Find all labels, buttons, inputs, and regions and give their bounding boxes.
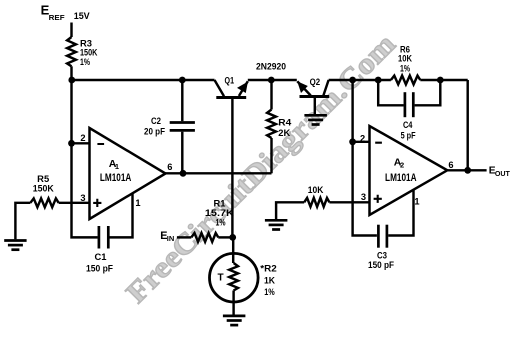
wire right vertical drop to output: [466, 80, 468, 170]
svg-text:1K: 1K: [264, 276, 275, 286]
svg-text:LM101A: LM101A: [100, 172, 132, 184]
junction A1 pin2 node: [68, 140, 75, 147]
svg-text:2: 2: [80, 133, 85, 143]
svg-text:C4: C4: [403, 120, 413, 130]
svg-text:10K: 10K: [308, 185, 324, 195]
ground (10K): [265, 220, 288, 229]
ground (Q2): [304, 115, 327, 124]
junction 2N2920 emitter node: [268, 77, 275, 84]
resistor R6: [391, 76, 420, 85]
resistor R5: [30, 198, 58, 207]
svg-text:5 pF: 5 pF: [401, 130, 416, 140]
wire R6 right rail: [420, 79, 467, 81]
watermark FreeCircuitDiagram.Com: [120, 28, 401, 309]
wire 10K to pin 3: [329, 201, 369, 203]
A1 minus plus: [93, 144, 104, 207]
svg-text:C1: C1: [95, 252, 107, 262]
junction C2/rail node: [179, 77, 186, 84]
svg-text:*R2: *R2: [260, 264, 277, 274]
junction A1 output node: [180, 170, 187, 177]
svg-text:Q2: Q2: [310, 77, 321, 87]
wire A2 pin 2: [353, 141, 370, 143]
svg-text:6: 6: [167, 162, 172, 172]
svg-text:150K: 150K: [33, 183, 54, 193]
wire A2 output: [447, 169, 486, 171]
svg-text:T: T: [217, 273, 223, 284]
resistor 10K: [304, 198, 329, 207]
svg-text:1%: 1%: [264, 287, 275, 297]
svg-text:3: 3: [361, 192, 366, 202]
svg-text:IN: IN: [167, 236, 175, 243]
junction summing node: [229, 234, 236, 241]
ground (R5): [4, 241, 26, 250]
wire R5 to pin 3: [59, 202, 90, 204]
svg-text:R1: R1: [214, 198, 226, 208]
wire E_IN to R1: [177, 236, 191, 238]
svg-text:15V: 15V: [74, 11, 91, 21]
svg-text:1: 1: [135, 198, 140, 208]
wire C1 to pin 1: [108, 193, 132, 237]
capacitor C1: [99, 226, 108, 249]
svg-text:2K: 2K: [278, 128, 290, 138]
svg-text:20 pF: 20 pF: [144, 126, 165, 136]
svg-text:10K: 10K: [398, 54, 412, 64]
wire center node to Q2: [271, 79, 297, 81]
svg-text:150 pF: 150 pF: [368, 260, 394, 270]
junction A2 pin2 node: [349, 138, 356, 145]
svg-text:LM101A: LM101A: [385, 172, 417, 184]
svg-text:1%: 1%: [216, 218, 227, 228]
op-amp A2: [370, 126, 448, 215]
wire R5 left to ground: [15, 203, 30, 239]
svg-text:1: 1: [414, 197, 419, 207]
resistor R1: [191, 233, 218, 242]
wire thermistor to ground: [232, 291, 234, 315]
wire A2 pin2 vertical to C3: [353, 80, 377, 236]
svg-text:2: 2: [360, 134, 365, 144]
svg-text:R4: R4: [278, 118, 292, 128]
wire 10K left to ground: [276, 202, 304, 219]
resistor R4: [267, 110, 276, 139]
wire C2 bottom: [181, 132, 183, 174]
thermistor R2 element: [229, 263, 238, 291]
svg-text:3: 3: [80, 193, 85, 203]
svg-text:OUT: OUT: [495, 171, 511, 178]
junction R6 right node: [437, 77, 444, 84]
transistor Q1: [215, 80, 225, 96]
junction R6 left node: [375, 77, 382, 84]
svg-text:1%: 1%: [400, 64, 411, 74]
wire E_REF stub: [70, 23, 72, 38]
wire left vertical (node to C1): [72, 80, 98, 237]
junction E_OUT node: [464, 167, 471, 174]
svg-text:2N2920: 2N2920: [256, 61, 286, 71]
svg-text:1: 1: [115, 162, 119, 171]
svg-text:Q1: Q1: [225, 75, 235, 85]
wire R4 branch: [270, 138, 272, 173]
wire R3 to node: [70, 66, 72, 80]
wire R4 top to node: [270, 80, 272, 110]
svg-text:C3: C3: [377, 250, 387, 260]
junction R3/rail node: [68, 77, 75, 84]
junction rail/A2 branch node: [349, 77, 356, 84]
svg-text:6: 6: [448, 160, 453, 170]
wire rail Q2 to R6: [353, 79, 391, 81]
wire A1 pin 2: [72, 142, 90, 144]
wire A1 output to R4 bottom: [166, 172, 272, 174]
wire node to thermistor: [232, 237, 234, 263]
resistor R3: [67, 37, 76, 66]
ground (thermistor): [223, 316, 246, 325]
svg-text:150 pF: 150 pF: [86, 263, 113, 273]
wire R1 to node: [218, 236, 232, 238]
capacitor C4: [405, 92, 413, 117]
capacitor C3: [378, 225, 387, 248]
transistor Q2: [297, 81, 310, 95]
svg-text:REF: REF: [49, 13, 65, 22]
wire C4 left branch: [378, 80, 403, 105]
wire top-left rail: [72, 79, 215, 81]
wire C4 right branch: [415, 80, 441, 105]
wire C3 right to pin 1: [388, 190, 413, 235]
thermistor T circle: [210, 253, 259, 302]
A2 minus plus: [374, 143, 382, 203]
svg-text:1%: 1%: [80, 57, 91, 67]
capacitor C2: [170, 123, 195, 131]
op-amp A1: [90, 128, 166, 219]
svg-text:C2: C2: [151, 116, 161, 126]
wire C2 top: [181, 80, 183, 121]
svg-text:2: 2: [400, 160, 404, 169]
